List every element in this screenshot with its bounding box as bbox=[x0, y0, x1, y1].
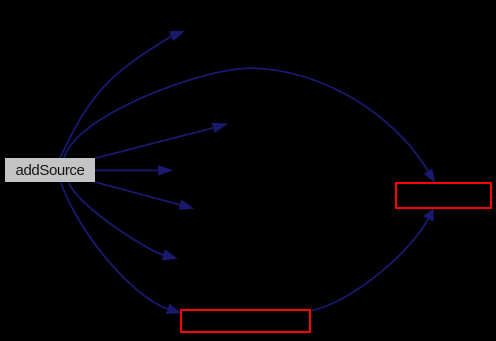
edge addSource to node A (curved call edge, top-left) bbox=[60, 36, 171, 158]
arrowhead D bbox=[179, 200, 195, 210]
arrowhead E bbox=[162, 249, 178, 260]
svg-text:addSource: addSource bbox=[16, 162, 85, 179]
edge addSource to node E (curved down) bbox=[69, 183, 163, 255]
arrowhead H into bottom of right red node bbox=[423, 208, 434, 222]
arrowhead A bbox=[169, 31, 185, 42]
node: bottom red box bbox=[181, 310, 310, 332]
arrowhead C bbox=[158, 165, 174, 175]
edge addSource to right red node (long upper arc) bbox=[64, 68, 428, 171]
edge addSource to node B (straight diagonal) bbox=[96, 128, 213, 158]
node addSource (gray) bbox=[5, 158, 95, 182]
arrowhead B bbox=[212, 123, 229, 133]
arrowhead G into top of right red node bbox=[424, 169, 436, 184]
node: right red box bbox=[396, 183, 491, 208]
edge addSource to node C (horizontal) bbox=[95, 169, 159, 171]
edge addSource to node D (straight diagonal down) bbox=[95, 182, 180, 205]
edge bottom red node to right red node (curved up-right) bbox=[312, 219, 428, 311]
arrowhead F into left side of bottom red node bbox=[166, 304, 182, 314]
edge addSource to bottom red node (curved down-right) bbox=[61, 183, 168, 309]
